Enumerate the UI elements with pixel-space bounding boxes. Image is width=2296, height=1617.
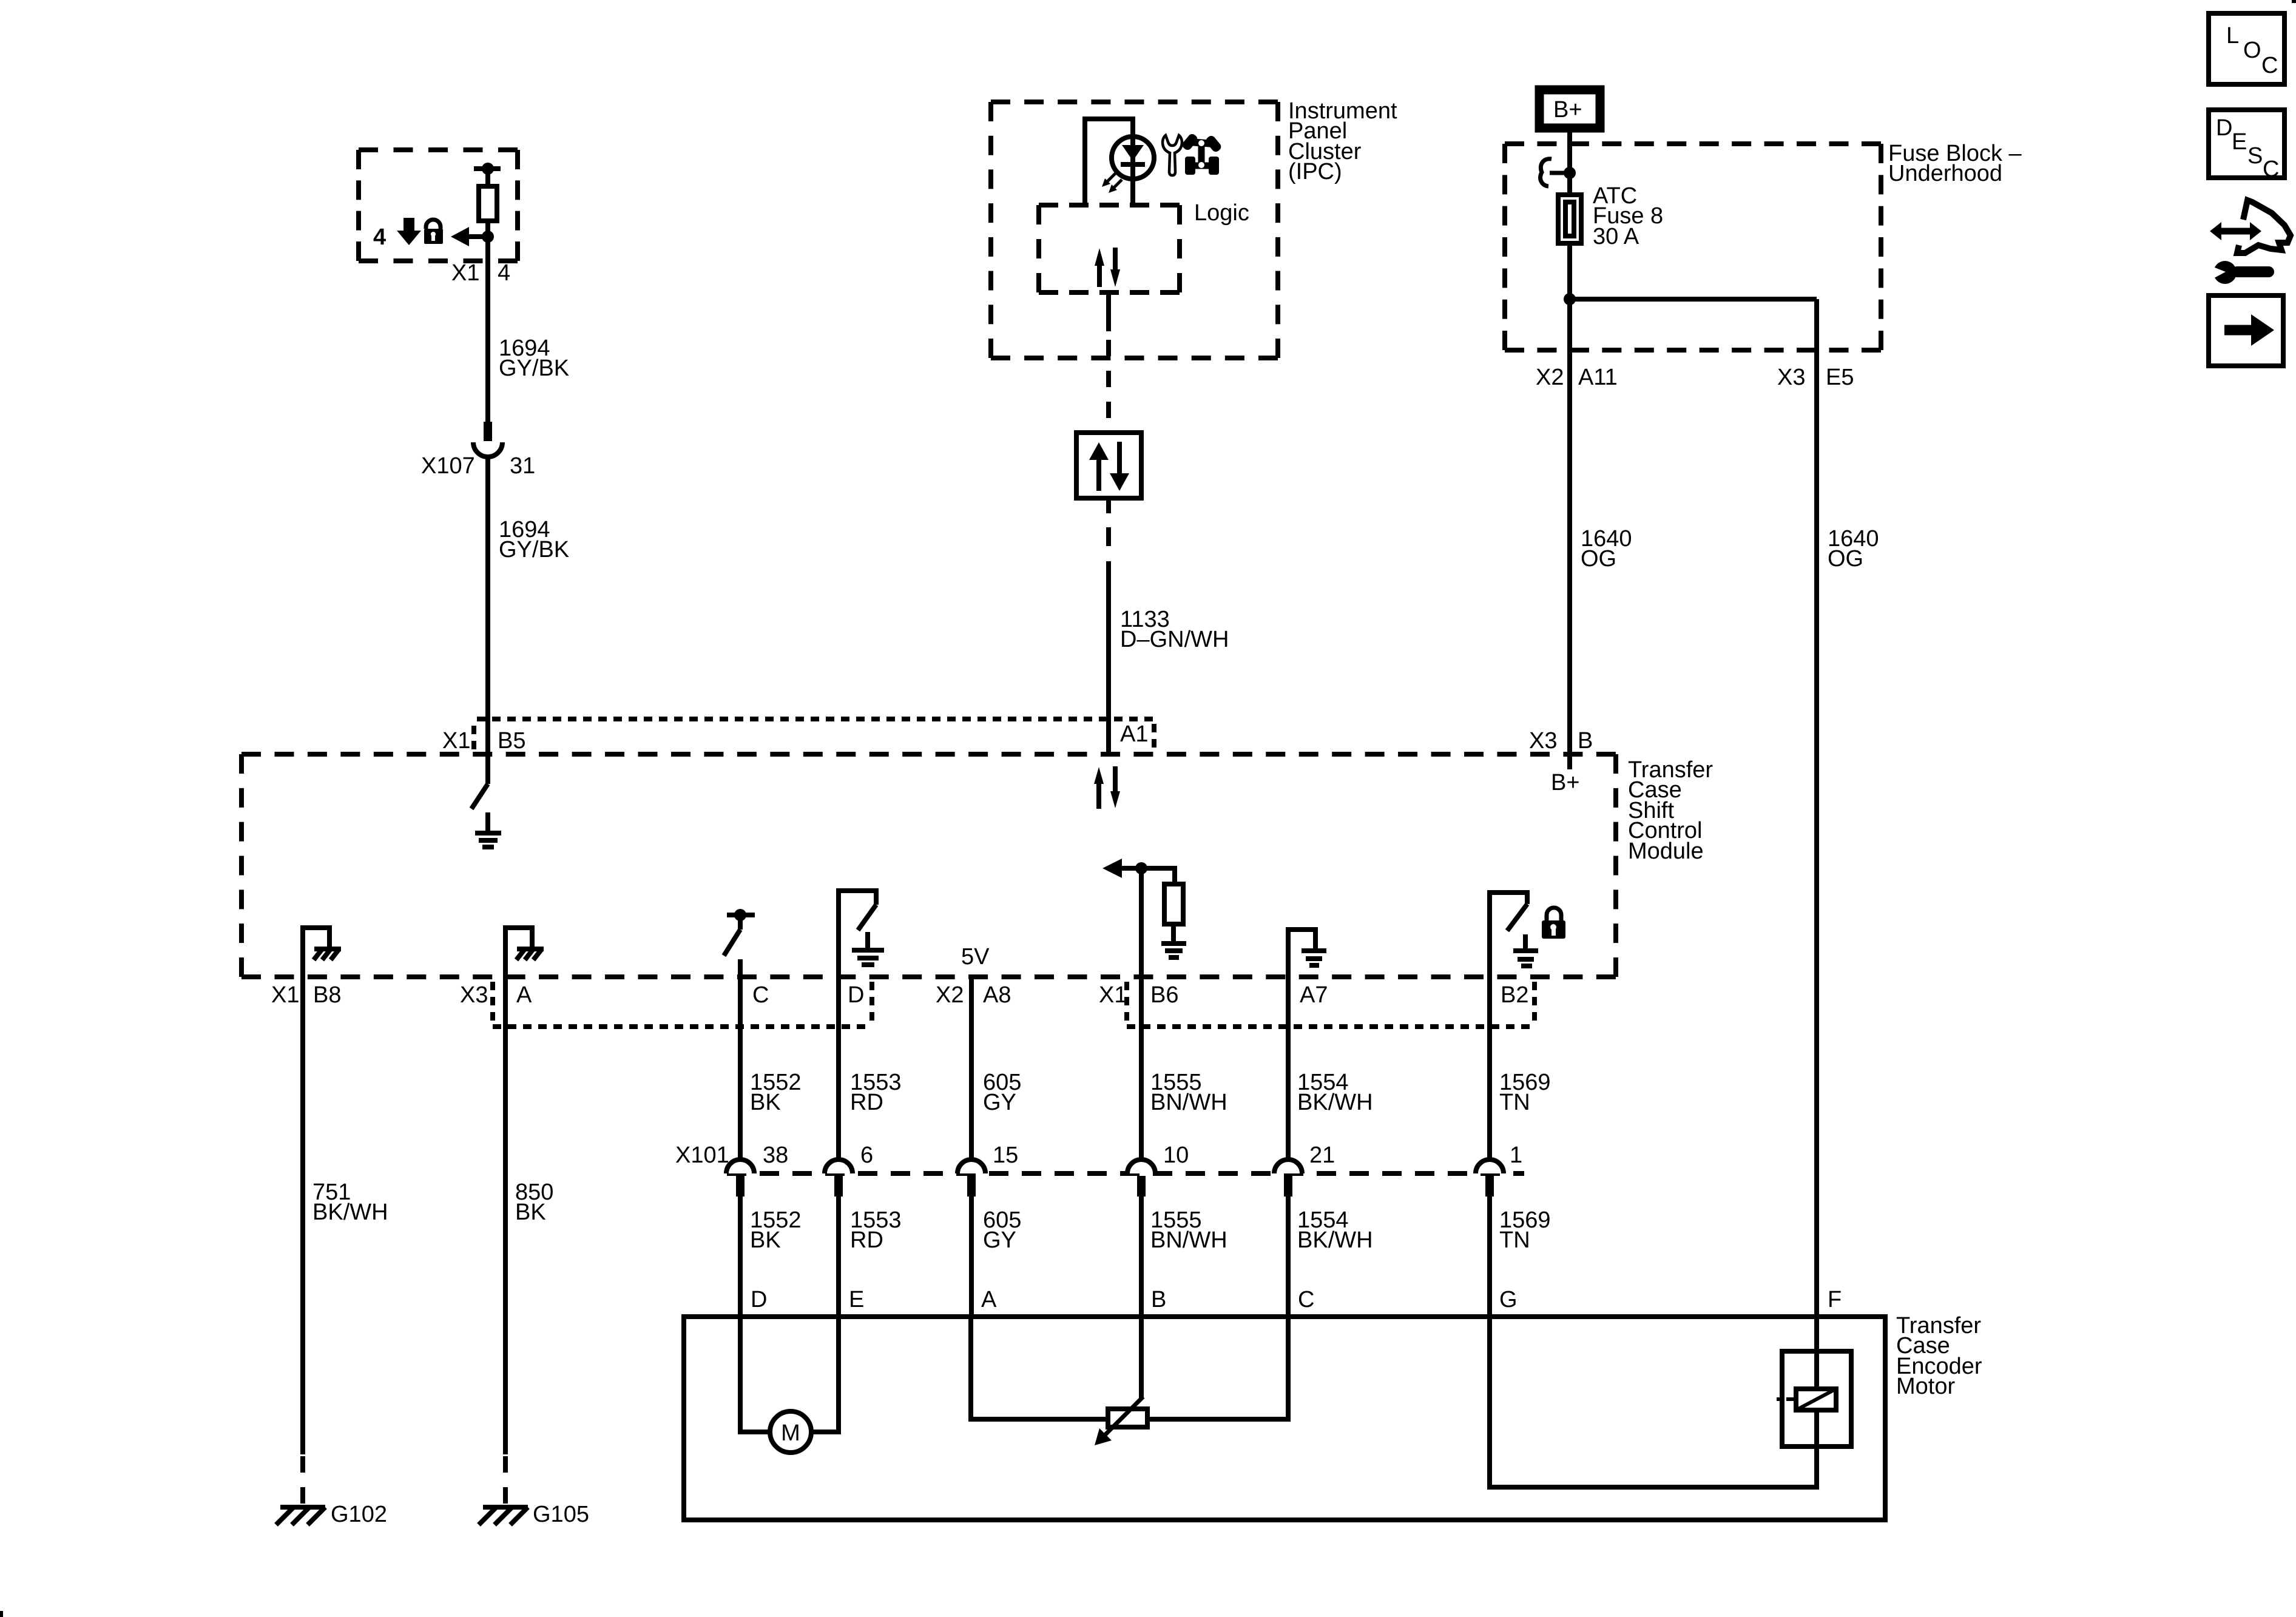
svg-text:O: O: [2243, 38, 2261, 63]
svg-text:B5: B5: [498, 728, 525, 754]
svg-text:RD: RD: [850, 1227, 883, 1253]
svg-text:X1: X1: [271, 982, 299, 1008]
svg-text:D: D: [2216, 115, 2232, 141]
svg-text:RD: RD: [850, 1090, 883, 1115]
svg-text:TN: TN: [1499, 1090, 1530, 1115]
svg-text:5V: 5V: [961, 944, 990, 970]
svg-text:B2: B2: [1501, 982, 1528, 1008]
svg-text:D: D: [848, 982, 864, 1008]
svg-text:S: S: [2247, 143, 2263, 169]
svg-text:X1: X1: [451, 260, 479, 286]
svg-text:6: 6: [860, 1143, 873, 1168]
svg-text:B: B: [1151, 1287, 1166, 1312]
svg-text:BK/WH: BK/WH: [312, 1200, 388, 1225]
svg-text:GY/BK: GY/BK: [499, 537, 569, 562]
svg-text:GY: GY: [983, 1090, 1016, 1115]
svg-text:OG: OG: [1581, 546, 1616, 572]
svg-text:BK: BK: [515, 1200, 546, 1225]
svg-text:D: D: [751, 1287, 767, 1312]
svg-text:BN/WH: BN/WH: [1150, 1227, 1227, 1253]
svg-text:1: 1: [1510, 1143, 1522, 1168]
svg-text:X107: X107: [421, 453, 475, 479]
svg-text:10: 10: [1163, 1143, 1189, 1168]
svg-text:OG: OG: [1828, 546, 1863, 572]
svg-text:B6: B6: [1150, 982, 1178, 1008]
svg-text:B+: B+: [1553, 97, 1582, 123]
svg-text:4: 4: [498, 260, 510, 286]
svg-text:Logic: Logic: [1194, 200, 1249, 226]
svg-text:B8: B8: [313, 982, 341, 1008]
svg-text:X101: X101: [675, 1143, 729, 1168]
svg-text:BK/WH: BK/WH: [1297, 1090, 1373, 1115]
svg-text:A: A: [516, 982, 532, 1008]
svg-text:B+: B+: [1551, 770, 1580, 795]
svg-text:D–GN/WH: D–GN/WH: [1120, 627, 1229, 652]
svg-text:C: C: [752, 982, 769, 1008]
svg-text:21: 21: [1309, 1143, 1335, 1168]
svg-text:X2: X2: [1536, 365, 1564, 390]
svg-text:A8: A8: [983, 982, 1011, 1008]
svg-text:TN: TN: [1499, 1227, 1530, 1253]
svg-text:B: B: [1578, 728, 1593, 754]
svg-text:30 A: 30 A: [1593, 224, 1639, 249]
svg-text:A11: A11: [1578, 365, 1618, 390]
svg-text:C: C: [2263, 157, 2279, 182]
svg-text:BN/WH: BN/WH: [1150, 1090, 1227, 1115]
svg-text:BK: BK: [750, 1090, 781, 1115]
svg-text:X2: X2: [936, 982, 964, 1008]
svg-text:BK: BK: [750, 1227, 781, 1253]
svg-text:G: G: [1499, 1287, 1518, 1312]
svg-text:E: E: [2232, 129, 2247, 155]
svg-text:E: E: [849, 1287, 864, 1312]
svg-text:C: C: [2261, 53, 2278, 78]
svg-text:GY/BK: GY/BK: [499, 356, 569, 381]
svg-text:Motor: Motor: [1896, 1374, 1955, 1399]
svg-text:E5: E5: [1826, 365, 1854, 390]
svg-text:F: F: [1828, 1287, 1842, 1312]
svg-text:38: 38: [763, 1143, 788, 1168]
svg-text:G102: G102: [331, 1502, 387, 1527]
svg-text:A7: A7: [1300, 982, 1328, 1008]
svg-text:X1: X1: [442, 728, 470, 754]
svg-text:C: C: [1298, 1287, 1314, 1312]
svg-text:M: M: [781, 1420, 800, 1446]
svg-text:Underhood: Underhood: [1888, 161, 2002, 186]
svg-text:31: 31: [510, 453, 535, 479]
svg-text:A1: A1: [1120, 721, 1148, 747]
svg-text:(IPC): (IPC): [1288, 159, 1342, 184]
svg-text:X3: X3: [1529, 728, 1557, 754]
svg-text:15: 15: [993, 1143, 1018, 1168]
svg-text:4: 4: [373, 224, 386, 250]
svg-text:GY: GY: [983, 1227, 1016, 1253]
svg-text:A: A: [981, 1287, 997, 1312]
svg-text:X3: X3: [460, 982, 488, 1008]
svg-text:G105: G105: [533, 1502, 589, 1527]
svg-text:Module: Module: [1628, 839, 1704, 864]
svg-text:X3: X3: [1777, 365, 1805, 390]
svg-text:BK/WH: BK/WH: [1297, 1227, 1373, 1253]
svg-text:L: L: [2226, 23, 2239, 49]
svg-text:X1: X1: [1099, 982, 1127, 1008]
